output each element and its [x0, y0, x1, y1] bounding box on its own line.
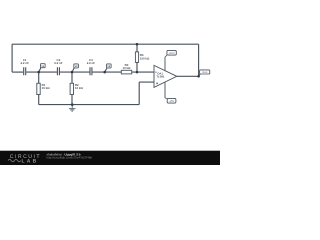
watermark bar	[0, 151, 220, 165]
pin V- stub	[164, 82, 166, 98]
svg-text:2.2 nF: 2.2 nF	[87, 61, 96, 65]
resistor R4 150 kOhm (feedback)	[135, 52, 150, 63]
svg-text:+15V: +15V	[168, 52, 175, 55]
power flag -15V	[165, 98, 176, 103]
svg-text:-15V: -15V	[169, 100, 175, 103]
svg-text:150 kΩ: 150 kΩ	[140, 56, 150, 60]
node V3 flag	[105, 64, 111, 72]
wire C1 to C2	[26, 71, 57, 73]
capacitor C2 2.2 nF	[54, 58, 63, 75]
svg-text:2.2 nF: 2.2 nF	[21, 61, 30, 65]
wire feedback right vertical	[198, 44, 200, 76]
resistor R1 10 kOhm	[37, 83, 50, 94]
capacitor C3 2.2 nF	[87, 58, 96, 75]
wire R2 branch	[71, 72, 73, 105]
capacitor C1 2.2 nF	[21, 58, 30, 75]
svg-text:LAB: LAB	[22, 159, 39, 165]
resistor R3 10 kOhm (horizontal)	[121, 63, 131, 74]
svg-text:10 kΩ: 10 kΩ	[123, 66, 132, 70]
ground	[69, 105, 76, 112]
wire R1 branch	[38, 72, 40, 105]
svg-text:TL081: TL081	[156, 75, 165, 79]
node V2 flag	[72, 64, 78, 72]
wire non-inverting input	[139, 82, 154, 105]
wire op-amp output	[177, 75, 199, 77]
wire R4 branch	[136, 44, 138, 72]
svg-text:10 kΩ: 10 kΩ	[75, 86, 84, 90]
junction R4 top	[136, 43, 139, 46]
svg-text:http://circuitlab.com/c75e47d2: http://circuitlab.com/c75e47d27f4bb	[47, 156, 93, 160]
svg-text:Vout: Vout	[202, 71, 207, 74]
wire C2 to C3	[60, 71, 90, 73]
junction ground rail	[71, 103, 74, 106]
junction output	[197, 75, 200, 78]
node V1 flag	[39, 64, 45, 72]
svg-text:10 kΩ: 10 kΩ	[42, 86, 51, 90]
wire top feedback	[12, 43, 199, 45]
output flag Vout	[199, 70, 210, 76]
junction node V2	[71, 71, 74, 74]
pin V+ stub	[164, 57, 166, 71]
wire left vertical	[11, 44, 13, 72]
wire input to C1	[12, 71, 23, 73]
op-amp OA1 TL081	[154, 57, 177, 98]
junction node V3	[103, 71, 106, 74]
resistor R2 10 kOhm	[70, 83, 83, 94]
junction node V1	[37, 71, 40, 74]
svg-text:2.2 nF: 2.2 nF	[54, 61, 63, 65]
wire R3 to op-amp inverting input	[132, 71, 154, 73]
power flag +15V	[165, 50, 176, 57]
junction inverting input / R4	[136, 71, 139, 74]
wire ground rail	[39, 104, 140, 106]
wire C3 to R3	[92, 71, 121, 73]
